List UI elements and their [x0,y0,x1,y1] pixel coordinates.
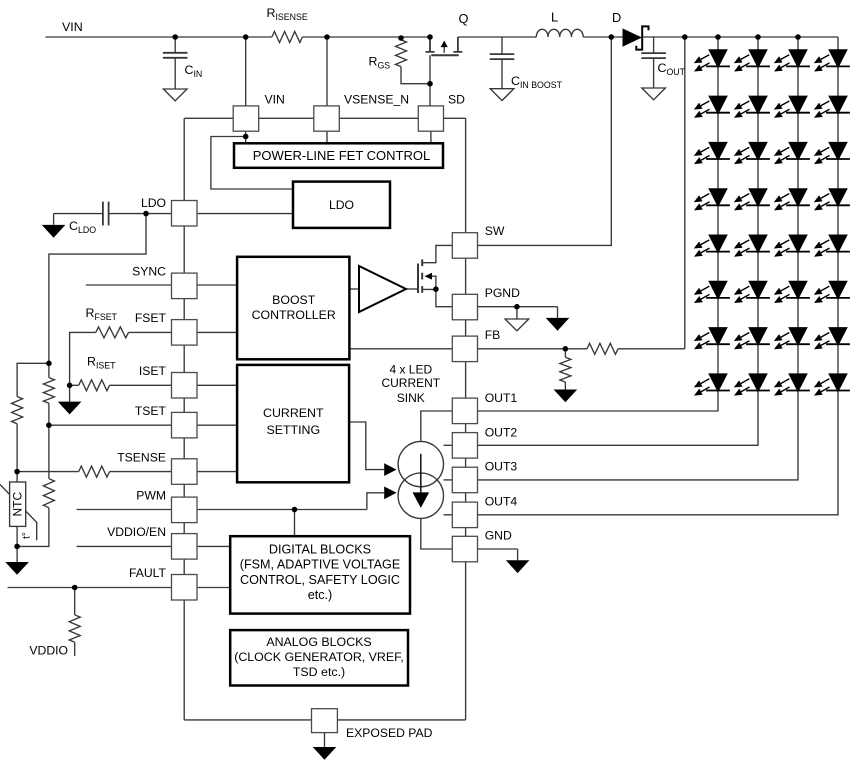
pin PWM [172,497,198,522]
svg-text:VDDIO/EN: VDDIO/EN [107,525,166,539]
LED string 3 row 6 [774,281,810,303]
svg-text:VSENSE_N: VSENSE_N [344,93,409,107]
gate buffer (driver) [359,266,406,312]
wire current sink stub to OUT3 [444,479,453,481]
wire FAULT to digital blocks [197,587,230,589]
pin VIN [233,106,259,131]
wire current sink to OUT1 [421,411,453,442]
pin SYNC [172,273,198,299]
capacitor C_IN BOOST [490,54,515,59]
ground (PGND filled) [546,318,570,331]
block DIGITAL BLOCKS [230,536,410,613]
wire FAULT external [8,587,172,589]
pin GND [452,536,477,562]
node SW [609,34,615,40]
pin PGND [452,294,477,320]
capacitor C_OUT [641,53,666,58]
LED string 3 row 3 [774,142,810,164]
wire NTC legs [16,472,18,562]
LED string 1 row 1 [694,49,730,71]
block LDO [293,182,390,228]
node divider top A [46,361,52,367]
pin LDO [172,201,198,227]
node LDO ext [143,211,149,217]
LED string 3 row 4 [774,188,810,210]
wire boost controller to gate buffer [349,288,359,290]
node VIN tap [243,34,249,40]
node LED col2 [755,34,761,40]
node PWM branch [292,507,298,513]
svg-text:FB: FB [485,328,501,342]
svg-text:LDO: LDO [141,196,166,210]
wire C_IN branch [174,37,176,89]
wire TSET to divider node [49,424,172,426]
wire Q gate to SD pin [429,55,431,105]
resistor FB divider lower [560,357,571,382]
svg-text:SINK: SINK [397,391,425,405]
node TSENSE-NTC [14,469,20,475]
svg-text:TSENSE: TSENSE [117,450,166,464]
wire FB sense riser from output rail [684,37,686,349]
pin OUT4 [452,502,477,527]
svg-text:SW: SW [485,224,505,238]
inductor L [536,29,583,37]
svg-text:ANALOG BLOCKS: ANALOG BLOCKS [266,635,371,649]
node internal FET source [433,286,439,292]
LED string 2 row 4 [734,188,770,210]
wire C_OUT branch [653,37,655,88]
svg-text:EXPOSED PAD: EXPOSED PAD [346,726,433,740]
ground (PGND open) [505,319,529,331]
svg-text:L: L [551,10,558,25]
node Q source tap [427,34,433,40]
block CURRENT SETTING [237,365,349,482]
wire SYNC stub [86,284,172,286]
wire FB pin to divider [478,348,588,350]
block ANALOG BLOCKS [230,630,408,685]
block POWER-LINE FET CONTROL [234,143,443,168]
ground (C_LDO) [42,225,66,238]
svg-text:LDO: LDO [329,198,354,212]
wire TSENSE to resistor [110,471,172,473]
LED string 1 row 2 [694,96,730,118]
LED string 4 row 8 [814,373,850,395]
wire ISET to current setting [197,384,237,386]
block BOOST CONTROLLER [237,257,349,360]
LED string 3 row 5 [774,235,810,257]
LED string 1 row 3 [694,142,730,164]
svg-text:PGND: PGND [485,286,520,300]
node LED col3 [795,34,801,40]
LED string 2 row 6 [734,281,770,303]
resistor FB series [587,343,618,354]
wire LED string 2 column [478,37,759,445]
wire IC outline [184,118,465,720]
resistor R_FSET [96,327,129,338]
wire internal FET source to PGND [422,276,452,307]
wire VDDIO/EN to digital blocks [197,545,230,547]
wire VSENSE_N pin drop [326,37,328,143]
LED string 1 row 5 [694,235,730,257]
svg-text:GND: GND [485,529,512,543]
wire current sink stub to OUT4 [444,514,453,516]
wire buffer to FET gate [406,288,418,290]
node FB sense [682,34,688,40]
wire FSET to boost controller [197,331,237,333]
resistor TSENSE series [79,466,110,477]
LED string 2 row 1 [734,49,770,71]
pin TSENSE [172,459,198,485]
svg-text:BOOST: BOOST [272,293,316,307]
pin FB [452,336,477,362]
wire TSENSE to current setting [197,471,237,473]
svg-text:SETTING: SETTING [266,423,320,437]
wire node A divider middle [17,363,49,546]
wire LED string 1 column [478,37,719,411]
resistor R_ISET [79,380,110,391]
pin OUT2 [452,433,477,459]
wire LED string 4 column [478,37,839,515]
ground (exposed pad) [313,747,337,760]
wire TSENSE resistor to NTC node [17,471,79,473]
svg-text:POWER-LINE FET CONTROL: POWER-LINE FET CONTROL [253,148,430,163]
svg-text:ISET: ISET [139,364,167,378]
wire rail segment D (inductor to diode) [583,36,622,38]
LED string 1 row 8 [694,373,730,395]
svg-text:TSET: TSET [135,404,167,418]
pin FAULT [172,575,198,601]
node FB divider [563,346,569,352]
LED string 2 row 8 [734,373,770,395]
capacitor C_IN [163,53,188,58]
LED string 3 row 7 [774,327,810,349]
svg-text:OUT4: OUT4 [485,494,518,508]
node PGND gnd [514,304,520,310]
ground (NTC network) [5,562,29,575]
svg-text:VDDIO: VDDIO [29,644,68,658]
wire LED string 3 column [478,37,799,480]
LED string 2 row 7 [734,327,770,349]
diode D (Schottky) [623,28,643,46]
node R_ISET gnd [67,383,73,389]
wire VIN input rail segment A [46,36,272,38]
svg-text:4 x LED: 4 x LED [389,363,432,377]
resistor VDDIO pull-up [69,615,80,642]
wire SYNC to boost controller [197,284,237,286]
svg-text:DIGITAL BLOCKS: DIGITAL BLOCKS [269,543,371,557]
capacitor C_LDO [103,202,109,226]
wire FSET to R_FSET [129,331,172,333]
svg-text:FAULT: FAULT [129,566,167,580]
node LED col1 [715,34,721,40]
wire current sink stub to OUT2 [444,444,453,446]
LED string 2 row 3 [734,142,770,164]
LED string 2 row 2 [734,96,770,118]
wire LDO pin to LDO block [197,213,293,215]
svg-text:(FSM, ADAPTIVE VOLTAGE: (FSM, ADAPTIVE VOLTAGE [240,558,400,572]
svg-text:CURRENT: CURRENT [381,376,440,390]
LED string 4 row 4 [814,188,850,210]
pin ISET [172,373,198,399]
wire TSET to current setting [197,424,237,426]
wire current sink bottom to GND [421,518,453,549]
svg-text:OUT2: OUT2 [485,425,518,439]
wire VIN to LDO block [211,137,293,190]
pin EXPOSED PAD [312,709,338,733]
wire VDDIO/EN stub [77,545,172,547]
pin FSET [172,320,198,346]
wire GND pin to ground [478,549,518,560]
wire PWM to sink enable [197,493,384,536]
LED string 4 row 2 [814,96,850,118]
LED string 2 row 5 [734,235,770,257]
arrowhead (current setting to sink) [384,463,396,476]
wire PWM stub [77,509,172,511]
svg-text:VIN: VIN [265,93,285,107]
wire R_ISET to ground node [70,385,79,401]
pin OUT1 [452,398,477,424]
wire LDO pin external (C_LDO) [54,214,172,225]
pin SD [418,106,443,131]
wire R_FSET left leg down [70,332,96,385]
svg-text:D: D [612,10,621,25]
svg-text:Q: Q [459,11,469,26]
wire boost controller to FB pin [349,348,452,350]
LED string 3 row 2 [774,96,810,118]
svg-text:SYNC: SYNC [132,265,166,279]
node R_GS tap [398,35,404,41]
wire FAULT pullup legs [74,588,76,657]
LED string 4 row 3 [814,142,850,164]
resistor R_ISENSE [272,32,302,43]
LED string 1 row 7 [694,327,730,349]
node C_IN tap [172,34,178,40]
svg-text:TSD etc.): TSD etc.) [293,665,345,679]
wire C_IN BOOST branch [501,37,503,89]
ground (FB divider) [554,390,578,403]
node Q gate [427,81,433,87]
svg-text:FSET: FSET [135,311,167,325]
wire PGND pin to grounds [478,307,558,319]
LED string 3 row 1 [774,49,810,71]
svg-text:PWM: PWM [136,489,166,503]
pin TSET [172,412,198,438]
svg-text:CURRENT: CURRENT [263,406,324,420]
wire SW node riser [478,37,612,245]
ground (C_IN) [163,89,187,101]
pin OUT3 [452,467,477,493]
wire R_GS bottom to gate node [401,67,430,84]
LED string 3 row 8 [774,373,810,395]
pin VSENSE_N [314,106,340,131]
svg-text:(CLOCK GENERATOR, VREF,: (CLOCK GENERATOR, VREF, [234,650,404,664]
resistor mid divider lower [43,479,54,508]
thermistor NTC [0,485,37,541]
node VIN-LDO branch [243,134,249,140]
LED string 4 row 1 [814,49,850,71]
internal power FET [418,259,432,293]
wire VIN pin drop [245,37,247,143]
resistor mid divider upper [43,378,54,404]
wire SD pin to control (below box) [430,131,432,144]
ground (GND pin) [506,560,530,573]
svg-text:t°: t° [22,532,33,539]
pin SW [452,233,477,259]
wire rail segment C (Q drain to inductor) [458,36,536,38]
LED string 4 row 5 [814,235,850,257]
wire exposed pad to ground [324,733,326,747]
ground (C_IN BOOST) [490,89,514,101]
svg-text:OUT1: OUT1 [485,391,518,405]
svg-text:VIN: VIN [62,20,83,34]
svg-text:OUT3: OUT3 [485,460,518,474]
resistor R_GS [396,40,407,67]
LED string 4 row 7 [814,327,850,349]
ground (R_FSET/R_ISET) [58,402,82,415]
transistor Q (external PMOS) [426,37,463,55]
wire rail segment B (to FET Q) [302,36,430,38]
svg-text:SD: SD [448,93,465,107]
wire FB resistor to sense riser [618,348,685,350]
wire FB divider lower leg [564,349,566,390]
svg-text:CONTROL, SAFETY LOGIC: CONTROL, SAFETY LOGIC [240,573,400,587]
LED string 1 row 6 [694,281,730,303]
node FAULT pullup [72,585,78,591]
LED string 4 row 6 [814,281,850,303]
svg-text:etc.): etc.) [308,588,333,602]
node VSENSE tap [324,34,330,40]
svg-text:CONTROLLER: CONTROLLER [252,308,336,322]
wire ISET to R_ISET [110,384,172,386]
node TSET tap [46,422,52,428]
arrowhead (PWM to sink) [384,487,396,500]
wire node A to left resistor [17,363,49,471]
ground (C_OUT) [642,88,666,100]
LED string 1 row 4 [694,188,730,210]
node NTC bottom [14,544,20,550]
svg-text:NTC: NTC [10,492,24,517]
wire current setting to sink [349,422,384,470]
current sink (2 circles with arrow) [398,441,443,486]
wire internal FET drain to SW [422,245,452,262]
resistor left divider upper [12,397,23,424]
wire LDO node to resistor network [49,214,146,364]
wire output rail segment E (diode to LED matrix) [643,36,838,38]
pin VDDIO/EN [172,534,198,560]
